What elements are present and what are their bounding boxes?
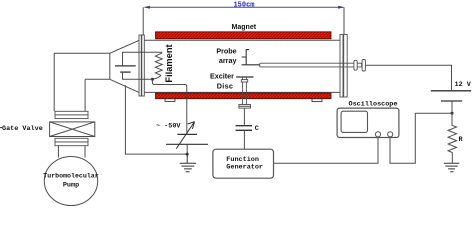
gate valve bottom flange bbox=[55, 138, 88, 145]
probe rod bbox=[260, 63, 362, 67]
elbow pipe horizontal bbox=[54, 53, 110, 79]
wire filament bias down through chamber bbox=[152, 80, 186, 134]
gate valve X bbox=[50, 122, 95, 137]
wire exciter to capacitor bbox=[243, 108, 245, 125]
chamber right flange bbox=[340, 35, 347, 98]
wire -50V to ground junction bbox=[186, 144, 188, 154]
wire cone ground bbox=[125, 85, 187, 154]
magnet bottom bar bbox=[156, 93, 332, 99]
-50V variable arrow bbox=[176, 122, 194, 149]
chamber left flange bbox=[139, 35, 144, 96]
exciter bottom flange bbox=[239, 105, 251, 109]
turbomolecular pump circle bbox=[44, 157, 97, 206]
gate valve body bbox=[50, 122, 95, 137]
wire capacitor to function generator bbox=[243, 131, 245, 149]
12V battery short plate bbox=[441, 100, 462, 102]
svg-text:Filament: Filament bbox=[164, 44, 174, 82]
junction node 12V bbox=[451, 112, 454, 115]
svg-text:Function: Function bbox=[226, 156, 259, 164]
svg-text:Generator: Generator bbox=[226, 164, 263, 172]
gate valve leader dash bbox=[0, 127, 2, 129]
filament junction node bbox=[151, 78, 154, 81]
cone reducer bbox=[110, 40, 139, 92]
svg-text:C: C bbox=[255, 125, 259, 133]
dimension left arrowhead bbox=[144, 6, 150, 9]
svg-text:Disc: Disc bbox=[217, 82, 233, 91]
wire filament to battery bottom bbox=[123, 72, 153, 79]
oscilloscope screen bbox=[341, 111, 367, 132]
svg-text:150cm: 150cm bbox=[233, 2, 254, 10]
svg-text:Magnet: Magnet bbox=[232, 24, 257, 31]
ground symbol right bbox=[444, 163, 459, 171]
svg-text:Gate Valve: Gate Valve bbox=[2, 125, 43, 133]
feedthrough tick 1 bbox=[354, 60, 357, 70]
dimension extension line left bbox=[142, 7, 144, 35]
probe array symbol bbox=[242, 50, 260, 65]
magnet foot left bbox=[165, 99, 175, 102]
magnet top bar bbox=[156, 32, 332, 39]
wire rod to 12V battery bbox=[365, 65, 451, 90]
capacitor C plates bbox=[236, 126, 252, 131]
oscilloscope knob 2 bbox=[388, 132, 393, 137]
svg-text:Exciter: Exciter bbox=[210, 72, 234, 81]
exciter tube cap bbox=[241, 80, 247, 82]
svg-text:Pump: Pump bbox=[63, 182, 79, 190]
dimension right arrowhead bbox=[338, 6, 344, 9]
wire battery top to filament bbox=[123, 52, 162, 66]
svg-text:Turbomolecular: Turbomolecular bbox=[43, 173, 98, 180]
svg-text:~ -50V: ~ -50V bbox=[156, 123, 181, 131]
ground symbol -50V bbox=[180, 154, 196, 172]
pump neck pipe bbox=[58, 146, 85, 158]
wire junction to scope right knob bbox=[390, 113, 452, 163]
exciter disc T bar bbox=[236, 76, 253, 78]
resistor R bbox=[448, 113, 456, 163]
wire 12V battery to junction bbox=[451, 101, 453, 113]
magnet foot right bbox=[312, 99, 322, 102]
wire bias crossing bottom bar bbox=[186, 92, 188, 99]
gate valve top flange bbox=[55, 111, 88, 118]
svg-text:Probe: Probe bbox=[216, 46, 236, 55]
svg-text:array: array bbox=[219, 56, 237, 65]
function generator box bbox=[213, 149, 274, 178]
oscilloscope box bbox=[337, 108, 399, 137]
oscilloscope knob 1 bbox=[375, 132, 380, 137]
feedthrough tick 2 bbox=[362, 60, 365, 72]
chamber top wall bbox=[145, 39, 341, 41]
svg-text:Oscilloscope: Oscilloscope bbox=[349, 100, 398, 108]
heater battery short plate bbox=[120, 71, 130, 73]
-50V supply top plate bbox=[177, 133, 197, 135]
dimension 150cm blue line bbox=[145, 6, 344, 8]
12V battery long plate bbox=[431, 90, 471, 92]
dimension extension line right bbox=[343, 7, 345, 34]
filament zigzag bbox=[152, 53, 162, 79]
chamber bottom wall bbox=[145, 91, 341, 93]
svg-text:12 V: 12 V bbox=[455, 81, 472, 89]
heater battery long plate bbox=[115, 65, 136, 67]
ground junction node bbox=[186, 153, 189, 156]
elbow pipe vertical bbox=[54, 53, 85, 111]
-50V supply bottom plate bbox=[166, 143, 208, 145]
wire scope left knob to function generator bbox=[274, 137, 379, 163]
exciter shaft tube bbox=[243, 77, 247, 105]
